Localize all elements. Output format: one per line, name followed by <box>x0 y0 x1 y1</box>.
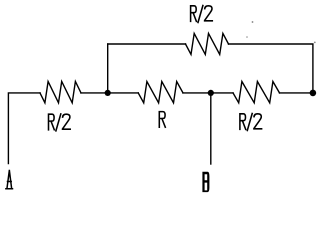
wire riser junction1 to top branch <box>107 44 109 93</box>
resistor R/2 right <box>233 82 280 103</box>
speck noise <box>314 42 316 44</box>
resistor R/2 left <box>40 82 81 103</box>
label R/2 left <box>49 114 71 131</box>
speck noise <box>252 21 254 23</box>
resistor R middle <box>138 82 183 103</box>
wire <box>183 92 233 94</box>
node right end <box>310 90 317 97</box>
label R/2 top <box>191 6 213 23</box>
wire junction2 down to B <box>210 93 212 164</box>
wire <box>280 92 313 94</box>
label R/2 right <box>240 113 262 130</box>
node B terminal label <box>202 172 209 192</box>
node junction 1 <box>105 90 111 96</box>
node A terminal label <box>6 171 13 189</box>
label R middle <box>159 112 165 128</box>
wire <box>81 92 138 94</box>
node junction 2 <box>208 90 214 96</box>
resistor R/2 top <box>186 33 229 54</box>
wire top branch right and down <box>229 44 313 93</box>
wire A terminal up to main line <box>8 93 40 164</box>
wire top branch left <box>108 43 186 45</box>
speck noise <box>246 36 248 38</box>
